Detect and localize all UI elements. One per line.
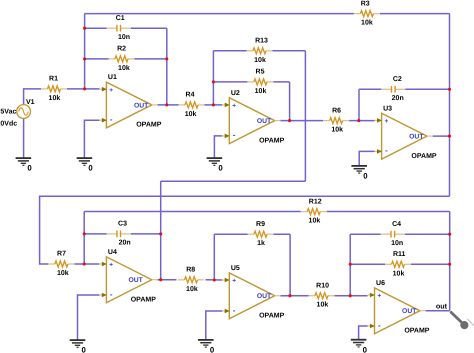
junction R9-left-bottom [213, 278, 216, 281]
resistor R5 10k [247, 69, 273, 95]
voltage source V1 5Vac 0Vdc [0, 99, 34, 127]
svg-text:-: - [378, 321, 381, 330]
svg-text:10n: 10n [118, 34, 130, 41]
wire U4 input node vertical [83, 212, 85, 265]
svg-text:OUT: OUT [257, 293, 272, 300]
svg-text:0: 0 [82, 346, 87, 353]
svg-text:OPAMP: OPAMP [259, 313, 284, 320]
wire R9 left [214, 233, 247, 235]
svg-text:10k: 10k [317, 301, 329, 309]
wire U1 input node vertical [84, 14, 86, 89]
svg-text:R3: R3 [361, 0, 370, 7]
wire U4 - input to ground [78, 295, 100, 340]
svg-text:C2: C2 [393, 76, 402, 83]
resistor R13 10k [247, 38, 273, 64]
svg-text:10k: 10k [186, 285, 198, 293]
resistor R6 10k [323, 107, 349, 133]
svg-text:C1: C1 [116, 15, 125, 22]
ground 0 (below U1) [77, 158, 94, 173]
wire C3 left [84, 233, 107, 235]
wire R9 right [274, 233, 291, 235]
svg-text:U4: U4 [108, 249, 117, 256]
svg-text:R7: R7 [57, 251, 66, 258]
capacitor C4 10n [381, 221, 405, 247]
svg-text:U2: U2 [231, 90, 240, 97]
svg-text:OUT: OUT [257, 118, 272, 125]
wire U1 - input to ground [84, 120, 99, 158]
wire R1 to U1 + input [67, 88, 99, 90]
svg-text:R8: R8 [186, 267, 195, 274]
junction C4-right [448, 233, 451, 236]
wire R5 right vertical [289, 82, 291, 121]
junction R11-right [448, 263, 451, 266]
svg-text:R12: R12 [309, 198, 322, 205]
junction U1-out [165, 103, 168, 106]
resistor R4 10k [179, 92, 205, 118]
resistor R9 1k [248, 221, 274, 247]
wire U4 out to R8 [157, 279, 176, 281]
ground 0 (below U5) [198, 340, 215, 353]
op-amp U3 OPAMP [375, 105, 437, 159]
wire R4 to U2 + input [205, 104, 223, 106]
ground 0 (below U6) [351, 340, 368, 353]
svg-text:0: 0 [27, 164, 32, 173]
wire U3 - input to ground [359, 151, 374, 165]
wire R11 right [411, 263, 450, 265]
svg-text:U6: U6 [376, 280, 385, 287]
svg-text:+: + [109, 87, 113, 94]
svg-text:+: + [385, 118, 389, 125]
wire U1 feedback vertical [166, 28, 168, 105]
svg-text:10k: 10k [361, 19, 373, 27]
junction C1-left [83, 27, 86, 30]
wire R13 right [273, 50, 306, 52]
svg-text:-: - [110, 115, 113, 124]
svg-text:out: out [436, 302, 448, 311]
svg-text:10k: 10k [118, 64, 130, 72]
wire C2 left [359, 88, 381, 90]
resistor R10 10k [309, 282, 335, 308]
wire U3 out to right vertical [433, 135, 450, 137]
svg-text:10k: 10k [254, 56, 266, 64]
svg-text:0: 0 [88, 164, 93, 173]
svg-text:10k: 10k [57, 269, 69, 277]
svg-text:OPAMP: OPAMP [259, 137, 284, 144]
junction U3-out [448, 135, 451, 138]
svg-text:C3: C3 [118, 221, 127, 228]
svg-text:20n: 20n [119, 240, 131, 247]
svg-text:-: - [385, 146, 388, 155]
svg-text:10k: 10k [331, 126, 343, 134]
svg-text:10n: 10n [391, 240, 403, 247]
svg-text:+: + [377, 293, 381, 300]
node out label [436, 302, 448, 311]
wire C4/R11 left vertical [349, 234, 351, 296]
wire R12 feedback row left [84, 211, 301, 213]
wire R5 right [273, 81, 289, 83]
svg-text:OPAMP: OPAMP [131, 297, 156, 304]
op-amp U4 OPAMP [99, 249, 157, 304]
wire C2 left vertical to U3 input [358, 89, 360, 120]
wire V1 to R1 [24, 89, 41, 105]
svg-text:V1: V1 [26, 99, 35, 106]
junction R2-left [83, 57, 86, 60]
wire R10 to U6 + input [335, 295, 368, 297]
voltage probe marker at out [451, 312, 473, 329]
svg-text:1k: 1k [257, 239, 265, 247]
wire U6 - input to ground [359, 326, 368, 340]
svg-text:10k: 10k [255, 87, 267, 95]
junction C2-right [448, 88, 451, 91]
junction U2-out [288, 119, 291, 122]
wire R2 left [85, 58, 109, 60]
svg-text:R9: R9 [256, 221, 265, 228]
svg-text:R5: R5 [256, 69, 265, 76]
wire C1 right [131, 27, 167, 29]
svg-text:0: 0 [210, 346, 215, 353]
wire C3 right [131, 233, 161, 235]
wire U5 - input to ground [206, 311, 223, 340]
wire U2 - input to ground [214, 136, 222, 158]
svg-text:R2: R2 [117, 46, 126, 53]
svg-text:20n: 20n [392, 95, 404, 102]
junction R5-left [212, 80, 215, 83]
wire R12 feedback row right [327, 211, 450, 213]
svg-text:10k: 10k [393, 269, 405, 277]
junction C3-right [159, 232, 162, 235]
svg-text:R1: R1 [49, 76, 58, 83]
wire C1 left [85, 27, 107, 29]
wire R6 to U3 + input [349, 120, 375, 122]
junction U5-out [288, 294, 291, 297]
op-amp U6 OPAMP [368, 280, 430, 335]
svg-text:10k: 10k [185, 110, 197, 118]
junction U4-out [159, 278, 162, 281]
svg-text:+: + [232, 278, 236, 285]
wire cross wire U2 column to U4 out [161, 180, 306, 182]
wire R2 right [135, 58, 167, 60]
svg-text:+: + [232, 103, 236, 110]
wire U4 feedback vertical [160, 181, 162, 280]
svg-text:OPAMP: OPAMP [136, 122, 161, 129]
svg-text:0Vdc: 0Vdc [0, 119, 17, 127]
wire U6 out to out node [426, 310, 450, 312]
op-amp U5 OPAMP [222, 265, 284, 320]
wire R8 to U5 + input [206, 279, 223, 281]
svg-text:0: 0 [218, 164, 223, 173]
wire R11 left [350, 263, 385, 265]
wire right vertical R3/C2/U3-out net [449, 14, 451, 197]
svg-text:R4: R4 [186, 92, 195, 99]
ground 0 (below U3) [351, 166, 368, 181]
svg-text:10k: 10k [49, 94, 61, 102]
svg-text:OPAMP: OPAMP [404, 328, 429, 335]
junction C3-left [83, 232, 86, 235]
wire U2 input node vertical R13/R5 [212, 51, 214, 105]
svg-text:R11: R11 [393, 251, 406, 258]
ground 0 (below U4) [70, 340, 87, 353]
resistor R8 10k [178, 267, 204, 293]
svg-text:0: 0 [363, 345, 368, 353]
svg-text:-: - [110, 290, 113, 299]
junction U2+ [212, 103, 215, 106]
resistor R11 10k [385, 251, 411, 277]
junction R2-right [165, 57, 168, 60]
svg-text:10k: 10k [309, 217, 321, 225]
wire right vertical C4/R11/out net [449, 212, 451, 311]
capacitor C3 20n [107, 221, 131, 247]
svg-text:U1: U1 [108, 74, 117, 81]
wire C2 right [405, 88, 449, 90]
svg-text:U3: U3 [383, 105, 392, 112]
wire R13 left [213, 50, 246, 52]
wire R13 right vertical [304, 51, 306, 181]
svg-text:5Vac: 5Vac [0, 108, 16, 115]
wire R9 left vertical [213, 234, 215, 280]
junction R7/U4+ [83, 262, 86, 265]
capacitor C1 10n [107, 15, 131, 41]
junction R10/U6+ [349, 294, 352, 297]
wire R7 to U4 + input [74, 263, 99, 265]
wire C4 right [405, 233, 450, 235]
resistor R3 10k [354, 0, 380, 26]
svg-text:OUT: OUT [134, 102, 149, 109]
resistor R2 10k [109, 46, 135, 72]
wire V1 to ground [23, 118, 25, 158]
ground 0 (below U2) [207, 158, 224, 173]
junction C2-left-bottom [357, 119, 360, 122]
wire R3 to right vertical [380, 13, 450, 15]
svg-text:OUT: OUT [409, 134, 424, 141]
svg-text:-: - [233, 306, 236, 315]
resistor R1 10k [41, 76, 67, 102]
junction R1/U1+ [83, 87, 86, 90]
svg-text:-: - [233, 131, 236, 140]
op-amp U2 OPAMP [222, 90, 284, 144]
svg-text:R13: R13 [255, 38, 268, 45]
wire C4 left [350, 233, 381, 235]
svg-text:OPAMP: OPAMP [411, 153, 436, 160]
ground 0 (below V1) [16, 158, 33, 173]
svg-text:0: 0 [363, 172, 368, 181]
wire stage2 input from U3 out [40, 196, 450, 264]
wire R9 right vertical [289, 234, 291, 296]
wire U2 out to R6 [280, 120, 323, 122]
svg-text:R10: R10 [316, 282, 329, 289]
resistor R7 10k [48, 251, 74, 277]
wire U5 out to R10 [280, 295, 308, 297]
wire R5 left [213, 81, 247, 83]
wire top feedback to R3 [85, 13, 354, 15]
svg-text:R6: R6 [332, 107, 341, 114]
capacitor C2 20n [381, 76, 405, 102]
wire U1 out to R4 [157, 104, 178, 106]
svg-text:C4: C4 [392, 221, 401, 228]
svg-text:OUT: OUT [402, 308, 417, 315]
svg-text:OUT: OUT [128, 277, 143, 284]
resistor R12 10k [301, 198, 327, 224]
op-amp U1 OPAMP [99, 74, 161, 129]
svg-text:+: + [109, 262, 113, 269]
svg-text:U5: U5 [231, 265, 240, 272]
junction R11-left [349, 263, 352, 266]
